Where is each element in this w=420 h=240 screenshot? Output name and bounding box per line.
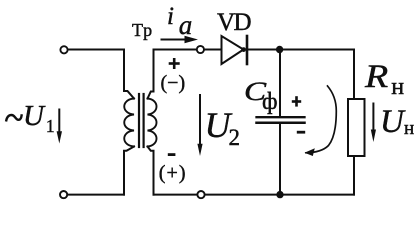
wire secondary bottom lead — [148, 147, 154, 195]
label (+) bottom polarity — [159, 163, 187, 183]
label (-) top polarity — [161, 73, 186, 93]
junction dot top — [276, 46, 283, 53]
diode VD triangle — [222, 36, 244, 64]
wire secondary top horizontal to diode — [154, 49, 222, 51]
wire secondary top lead — [148, 50, 154, 99]
terminal top-left — [60, 46, 67, 53]
wire resistor bottom — [353, 156, 355, 195]
label i (anode current) — [167, 4, 174, 29]
wire primary bottom lead — [124, 147, 134, 195]
label U2 — [205, 107, 231, 143]
label Tr (transformer) — [132, 21, 153, 39]
transformer T secondary winding — [148, 99, 157, 147]
wire bottom horizontal — [154, 194, 355, 196]
wire bottom-left horizontal — [68, 194, 125, 196]
minus sign bottom secondary — [168, 153, 176, 156]
wire capacitor top branch — [279, 50, 281, 117]
label VD diode — [217, 10, 250, 35]
label U of Un — [380, 106, 404, 139]
label f subscript (Cyrillic ef) — [262, 90, 278, 114]
transformer core line left — [138, 94, 140, 147]
diode VD cathode bar — [246, 36, 249, 64]
plus sign capacitor — [292, 96, 301, 106]
label 2 subscript — [229, 126, 241, 149]
wire top-left horizontal — [68, 49, 124, 51]
wire primary top lead — [124, 50, 134, 99]
label 1 subscript — [46, 117, 55, 135]
terminal bottom-middle — [197, 191, 204, 198]
capacitor Cf bottom plate — [257, 121, 305, 124]
discharge current curved arrow — [305, 86, 337, 156]
wire capacitor bottom branch — [279, 124, 281, 195]
label C of Cf capacitor — [244, 78, 266, 105]
tilde of ~U1 — [6, 115, 21, 120]
wire right vertical to resistor — [353, 50, 355, 100]
plus sign top secondary — [169, 58, 180, 69]
label n subscript of Un — [404, 119, 414, 138]
voltage U2 arrow — [197, 95, 202, 156]
transformer core line right — [143, 94, 145, 147]
voltage Un arrow — [371, 104, 376, 143]
label a subscript of ia — [179, 12, 193, 39]
voltage U1 arrow — [57, 110, 62, 144]
terminal bottom-left — [60, 191, 67, 198]
diode apex junction — [241, 47, 246, 52]
junction dot bottom — [276, 191, 283, 198]
transformer T primary winding — [124, 99, 134, 147]
label R of Rn load — [365, 61, 388, 94]
capacitor Cf top plate — [257, 116, 305, 118]
current ia arrow — [162, 36, 199, 44]
label n subscript of Rn — [391, 75, 404, 99]
minus sign capacitor — [297, 131, 305, 134]
resistor Rn rectangle — [348, 99, 365, 156]
wire diode to right corner — [247, 49, 354, 51]
terminal top-middle — [197, 46, 204, 53]
label U1 — [23, 102, 44, 131]
